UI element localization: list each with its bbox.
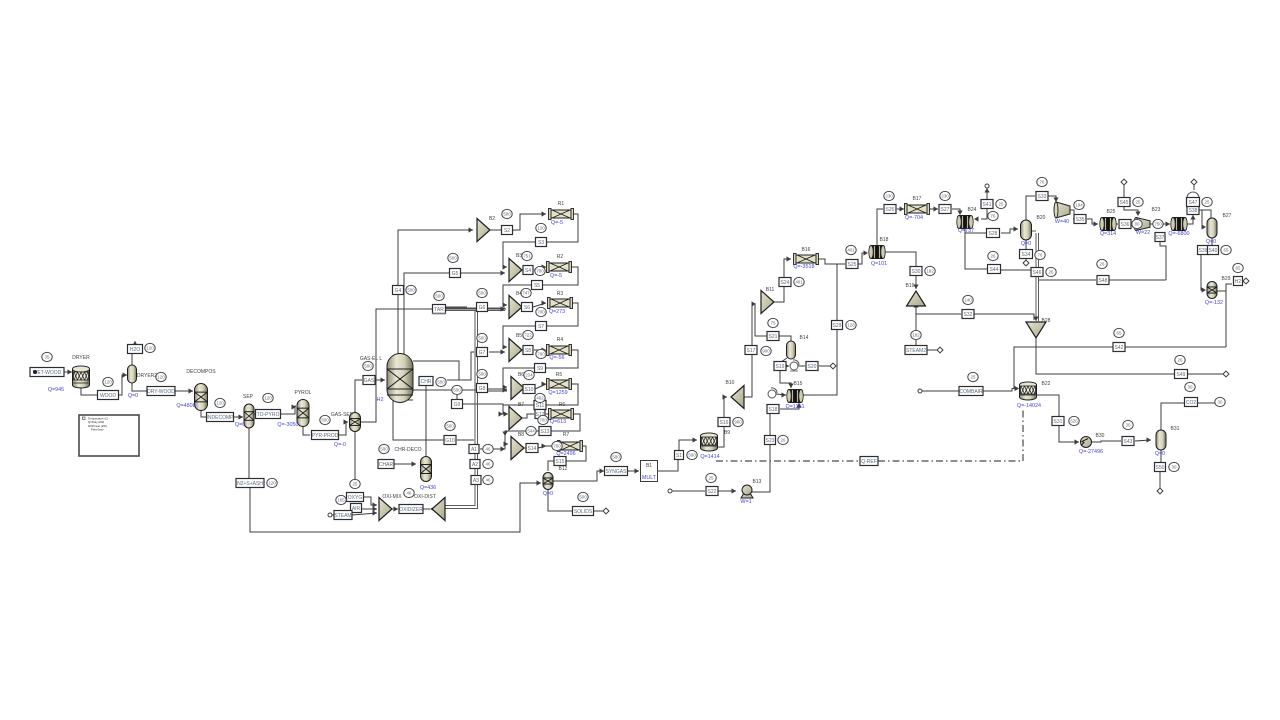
heat stream wire (878, 460, 1023, 462)
svg-text:B18: B18 (880, 237, 889, 243)
flow arrow (123, 372, 128, 377)
svg-text:GAS: GAS (364, 378, 375, 384)
svg-text:S41: S41 (983, 202, 992, 208)
TAR underline (432, 313, 446, 315)
svg-text:722: 722 (524, 333, 532, 338)
stream TO-PYRO (256, 410, 281, 419)
indicator 194 (1074, 200, 1084, 209)
stream S1 (675, 451, 684, 460)
stream S31 (1052, 417, 1064, 426)
indicator 500 (445, 421, 455, 430)
flow arrow (1015, 386, 1020, 391)
svg-text:OXIDIZER: OXIDIZER (399, 507, 423, 513)
wire (965, 233, 987, 269)
flow arrow (957, 211, 962, 216)
stream INDECOMP (207, 413, 234, 422)
wire (444, 505, 475, 507)
svg-text:30: 30 (1126, 423, 1131, 428)
wire (81, 388, 97, 395)
stream WOOD (98, 391, 119, 400)
stream G5 (450, 269, 461, 278)
wire (743, 355, 752, 397)
svg-text:S10: S10 (525, 387, 534, 393)
flow arrow (787, 256, 792, 261)
wire (1001, 269, 1031, 271)
wire (986, 188, 988, 199)
flow arrow (189, 388, 194, 393)
heat-exchanger B15 (788, 390, 803, 403)
wire (134, 341, 136, 345)
svg-text:128: 128 (847, 323, 855, 328)
svg-text:500: 500 (449, 256, 457, 261)
svg-text:S43: S43 (1124, 439, 1133, 445)
svg-text:B30: B30 (1096, 433, 1105, 439)
indicator 26 (1097, 259, 1107, 268)
diffuser OXI-DIST (432, 498, 445, 521)
indicator 482 (535, 393, 545, 402)
svg-text:500: 500 (407, 288, 415, 293)
svg-text:G7: G7 (479, 350, 486, 356)
svg-text:626: 626 (1070, 419, 1078, 424)
svg-text:25: 25 (1205, 200, 1210, 205)
mixer B28 (1026, 322, 1046, 338)
svg-text:Q=0: Q=0 (235, 422, 245, 428)
flow arrow (1166, 221, 1171, 226)
indicator 46 (483, 459, 493, 468)
stream S28 (987, 229, 1000, 238)
svg-text:S33: S33 (1038, 194, 1047, 200)
svg-text:B3: B3 (516, 253, 522, 259)
wire (338, 422, 348, 435)
flow arrow (412, 461, 417, 466)
svg-text:TAR: TAR (434, 307, 444, 313)
indicator 30 (1215, 397, 1225, 406)
svg-text:S20: S20 (808, 364, 817, 370)
flow arrow (499, 411, 504, 416)
svg-text:120: 120 (104, 380, 112, 385)
svg-text:182: 182 (912, 333, 920, 338)
wire (488, 390, 507, 392)
svg-text:25: 25 (999, 202, 1004, 207)
stream terminator (937, 347, 943, 353)
svg-text:35: 35 (45, 355, 50, 360)
heater R7 (559, 442, 581, 450)
flow arrow (373, 502, 378, 507)
stream terminator (1191, 179, 1197, 185)
flow arrow (1131, 221, 1136, 226)
svg-text:S38: S38 (1189, 208, 1198, 214)
svg-text:CHR: CHR (421, 379, 432, 385)
stream OXYG (347, 493, 364, 502)
flow arrow (1202, 224, 1207, 229)
indicator 26 (778, 435, 788, 444)
wire (489, 351, 505, 353)
indicator 46 (404, 488, 414, 497)
stream H2O (128, 345, 143, 354)
stream S38 (1187, 206, 1199, 215)
stream WET-WOOD (30, 368, 64, 377)
stream source (918, 389, 922, 393)
wire (548, 461, 554, 471)
svg-text:S39: S39 (1199, 248, 1208, 254)
vessel separator B29 (1207, 282, 1217, 299)
stream G7 (477, 348, 488, 357)
vent (1187, 192, 1199, 198)
svg-text:R2: R2 (557, 254, 564, 260)
multiplier B1 (641, 461, 658, 482)
mixer OXI-MIX (379, 498, 392, 521)
wire (1217, 284, 1232, 291)
stream S12 (535, 410, 545, 419)
heater R3 (549, 299, 571, 307)
flow arrow (635, 468, 640, 473)
wire (780, 370, 791, 388)
svg-text:Q=-5: Q=-5 (550, 273, 562, 279)
indicator 76 (1035, 250, 1045, 259)
svg-text:182: 182 (926, 269, 934, 274)
svg-text:750: 750 (1154, 222, 1162, 227)
stream S44 (988, 265, 1001, 274)
wire (755, 305, 767, 336)
vessel flash B27 (1207, 218, 1217, 238)
svg-text:S45: S45 (1120, 200, 1129, 206)
svg-text:Q=101: Q=101 (871, 261, 887, 267)
indicator 140 (963, 295, 973, 304)
wire (521, 414, 534, 418)
indicator 626 (1069, 416, 1079, 425)
svg-text:DRYER2: DRYER2 (137, 373, 157, 379)
indicator 500 (363, 361, 373, 370)
wire (1036, 338, 1174, 374)
svg-text:B17: B17 (913, 196, 922, 202)
heater R5 (548, 380, 570, 388)
wire (1243, 280, 1245, 282)
indicator 700 (536, 307, 546, 316)
svg-text:Q=945: Q=945 (48, 387, 64, 393)
svg-text:S21: S21 (769, 334, 778, 340)
wire (718, 490, 736, 492)
indicator 700 (536, 349, 546, 358)
wire (547, 303, 578, 326)
indicator 500 (477, 288, 487, 297)
svg-text:S13: S13 (541, 429, 550, 435)
stream A2 (470, 460, 480, 469)
wire (477, 311, 479, 509)
svg-text:Q=436: Q=436 (420, 485, 436, 491)
wire (798, 365, 805, 367)
svg-text:CHR-DECO: CHR-DECO (395, 447, 422, 453)
vessel DRYER2 (128, 365, 137, 383)
vessel gasifier GAS-EL (387, 354, 413, 403)
svg-text:S18: S18 (769, 407, 778, 413)
svg-text:MULT: MULT (642, 475, 657, 481)
wire (533, 303, 546, 307)
indicator 76 (988, 211, 998, 220)
svg-text:120: 120 (216, 401, 224, 406)
wire (364, 497, 377, 505)
indicator 500 (502, 209, 512, 218)
wire (1120, 346, 1226, 348)
wire (1025, 259, 1027, 261)
indicator 120 (263, 393, 273, 402)
stream S39 (1198, 246, 1209, 255)
stream S13 (539, 427, 551, 436)
stream S36 (1119, 220, 1131, 229)
flow arrow (542, 411, 547, 416)
svg-text:30: 30 (1188, 385, 1193, 390)
flow arrow (1190, 215, 1195, 220)
indicator 65 (1233, 263, 1243, 272)
svg-text:S50: S50 (1156, 465, 1165, 471)
stream CHR (419, 377, 433, 386)
wire (594, 510, 604, 512)
svg-text:S14: S14 (528, 446, 537, 452)
indicator 500 (406, 285, 416, 294)
valve mark (790, 370, 798, 372)
svg-text:W=40: W=40 (1055, 219, 1069, 225)
svg-text:Q=0: Q=0 (1021, 241, 1031, 247)
svg-text:G6: G6 (479, 305, 486, 311)
stream G4 (393, 286, 404, 295)
stream S5 (532, 281, 543, 290)
svg-text:S42: S42 (1115, 345, 1124, 351)
svg-text:234: 234 (525, 373, 533, 378)
stream STEAM2 (905, 346, 927, 355)
indicator 26 (1046, 267, 1056, 276)
flow arrow (373, 510, 378, 515)
svg-text:OXI-MIX: OXI-MIX (382, 494, 402, 500)
svg-text:S36: S36 (1121, 222, 1130, 228)
svg-text:S15: S15 (556, 459, 565, 465)
wire (1001, 229, 1018, 233)
svg-text:S4: S4 (525, 268, 531, 274)
indicator 747 (521, 288, 531, 297)
svg-text:26: 26 (991, 254, 996, 259)
wire (446, 306, 467, 308)
indicator 30 (1169, 462, 1179, 471)
indicator 25 (968, 372, 978, 381)
wire (1123, 184, 1125, 198)
indicator 700 (552, 441, 562, 450)
stream S37 (1155, 233, 1165, 242)
heat-exchanger B25 (1101, 218, 1116, 231)
wire (769, 413, 771, 436)
stream G8 (477, 384, 488, 393)
svg-text:S25: S25 (848, 262, 857, 268)
wire (355, 380, 362, 413)
svg-text:S19: S19 (776, 364, 785, 370)
svg-text:G8: G8 (479, 386, 486, 392)
flow arrow (974, 216, 979, 221)
wire (248, 428, 250, 478)
svg-text:S16: S16 (720, 420, 729, 426)
wire (505, 431, 539, 443)
flow arrow (501, 306, 506, 311)
svg-text:B14: B14 (800, 335, 809, 341)
flow arrow (501, 270, 506, 275)
indicator 120 (536, 223, 546, 232)
indicator 182 (925, 266, 935, 275)
svg-text:B29: B29 (1222, 276, 1231, 282)
svg-text:120: 120 (157, 375, 165, 380)
svg-text:80: 80 (1135, 222, 1140, 227)
wire (780, 403, 799, 409)
vessel DRYER (73, 366, 90, 388)
wire (490, 229, 501, 231)
wire (444, 508, 478, 510)
stream S49 (1175, 370, 1188, 379)
svg-text:75: 75 (771, 321, 776, 326)
heater R1 (550, 210, 572, 218)
stream SYNGAS (605, 467, 628, 476)
heater R4 (548, 346, 570, 354)
indicator 65 (1221, 245, 1231, 254)
svg-text:G9: G9 (454, 402, 461, 408)
flow arrow (542, 300, 547, 305)
flow arrow (469, 227, 474, 232)
svg-text:25: 25 (971, 375, 976, 380)
svg-text:25: 25 (353, 482, 358, 487)
flow arrow (542, 264, 547, 269)
wire (1160, 450, 1162, 462)
wire (1187, 215, 1193, 224)
svg-text:B28: B28 (1042, 318, 1051, 324)
wire (361, 508, 377, 510)
svg-text:500: 500 (435, 294, 443, 299)
svg-text:STEAM: STEAM (334, 513, 351, 519)
svg-text:S28: S28 (989, 231, 998, 237)
wire (131, 354, 133, 366)
svg-text:S40: S40 (1209, 248, 1218, 254)
stream S23 (765, 436, 776, 445)
svg-text:Q=-27496: Q=-27496 (1079, 449, 1103, 455)
stream DRY-WOOD (147, 387, 175, 396)
wire (447, 352, 474, 380)
wire (503, 285, 531, 305)
stream S33 (1036, 192, 1048, 201)
stream S4 (523, 266, 533, 275)
svg-text:500: 500 (380, 447, 388, 452)
turbine B26 (1136, 218, 1150, 231)
stream Q-REF (860, 457, 878, 466)
wire (1092, 441, 1121, 442)
wire (915, 275, 917, 289)
wire (802, 330, 837, 395)
compressor B7 (509, 407, 522, 430)
flow arrow (693, 437, 698, 442)
svg-text:Q=-3518: Q=-3518 (793, 264, 814, 270)
stream STEAM (334, 511, 352, 520)
heat-exchanger B18 (870, 246, 885, 259)
compressor B3 (509, 259, 522, 282)
wire (503, 368, 534, 387)
svg-text:S17: S17 (747, 348, 756, 354)
svg-text:B27: B27 (1223, 213, 1232, 219)
svg-text:46: 46 (486, 478, 491, 483)
flow arrow (344, 419, 349, 424)
stream COMBAIR (959, 387, 983, 396)
wire (1014, 347, 1113, 388)
indicator 46 (483, 444, 493, 453)
stream S18 (767, 405, 779, 414)
stream S16 (718, 418, 730, 427)
wire (1135, 440, 1151, 441)
flow arrow (788, 384, 793, 389)
svg-text:S9: S9 (537, 366, 543, 372)
wire (1201, 255, 1205, 290)
svg-text:B22: B22 (1042, 381, 1051, 387)
wire (566, 446, 586, 461)
wire (463, 404, 508, 414)
svg-text:WOOD: WOOD (100, 393, 116, 399)
stream S45 (1118, 198, 1130, 207)
svg-text:Q=4808: Q=4808 (176, 403, 195, 409)
stream S9 (535, 364, 546, 373)
indicator 500 (448, 253, 458, 262)
indicator 165 (336, 495, 346, 504)
indicator 500 (434, 291, 444, 300)
indicator 401 (794, 277, 804, 286)
wire (1188, 373, 1224, 375)
indicator 25 (706, 473, 716, 482)
wire (280, 406, 296, 414)
svg-text:140: 140 (964, 298, 972, 303)
wire (981, 209, 987, 219)
wire (551, 414, 580, 431)
svg-text:CHAR: CHAR (379, 462, 394, 468)
stream S35 (1074, 215, 1086, 224)
wire (398, 230, 473, 354)
svg-text:Q=0: Q=0 (1206, 239, 1216, 245)
svg-text:Q=0: Q=0 (128, 393, 138, 399)
svg-text:S44: S44 (990, 267, 999, 273)
indicator 500 (320, 415, 330, 424)
stream terminator (830, 363, 836, 369)
svg-text:PYR-PROD: PYR-PROD (312, 433, 339, 439)
stream S29 (832, 321, 843, 330)
svg-text:DECOMPOS: DECOMPOS (186, 369, 216, 375)
indicator 25 (1202, 197, 1212, 206)
stream S40 (1208, 246, 1219, 255)
svg-text:B19: B19 (906, 283, 915, 289)
svg-text:900: 900 (762, 349, 770, 354)
svg-text:120: 120 (268, 481, 276, 486)
svg-text:WET-WOOD: WET-WOOD (33, 370, 62, 376)
svg-text:26: 26 (1049, 270, 1054, 275)
svg-text:120: 120 (146, 346, 154, 351)
svg-text:N2+S+ASH: N2+S+ASH (237, 481, 263, 487)
wire (488, 388, 507, 390)
svg-text:CO2: CO2 (1186, 400, 1197, 406)
stream S20 (806, 362, 818, 371)
svg-text:76: 76 (1040, 180, 1045, 185)
wire (773, 287, 784, 302)
wire (413, 389, 452, 391)
stream S41 (981, 200, 993, 209)
svg-text:500: 500 (364, 364, 372, 369)
wire (1198, 402, 1218, 404)
flow arrow (68, 369, 73, 374)
turbine B10 (731, 386, 744, 409)
indicator 500 (611, 452, 621, 461)
stream S43 (1122, 437, 1134, 446)
svg-text:R3: R3 (557, 291, 564, 297)
stream S19 (774, 362, 786, 371)
flow arrow (503, 344, 508, 349)
wire (1115, 223, 1118, 225)
svg-text:OXI-DIST: OXI-DIST (414, 494, 436, 500)
flow arrow (913, 303, 918, 308)
